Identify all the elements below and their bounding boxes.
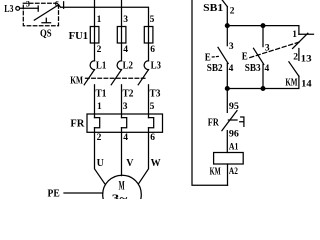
- wire NC to KM aux: [298, 49, 300, 61]
- svg-text:4: 4: [123, 133, 128, 143]
- svg-text:4: 4: [265, 64, 270, 74]
- svg-text:KM: KM: [285, 77, 297, 88]
- svg-text:A2: A2: [229, 167, 238, 177]
- svg-text:E: E: [205, 52, 211, 64]
- svg-text:V: V: [126, 158, 134, 169]
- svg-text:3: 3: [26, 0, 30, 8]
- button SB3 linkage dashed: [250, 41, 302, 57]
- svg-text:6: 6: [55, 0, 59, 8]
- button SB2 actuator dashes: [212, 55, 220, 58]
- wire rail to SB3: [262, 26, 264, 47]
- junction dot bottom mid: [261, 87, 265, 91]
- button SB3 blade: [254, 48, 264, 64]
- switch QS enclosure: [23, 3, 58, 25]
- FR heater 3: [149, 118, 154, 128]
- wire SB2 to bottom rail: [226, 64, 228, 89]
- svg-text:T3: T3: [150, 88, 161, 99]
- wire fuse3 to KM: [148, 43, 150, 61]
- svg-text:1: 1: [97, 15, 102, 25]
- pin 6 terminal tick: [63, 2, 65, 9]
- node L3: [16, 6, 20, 10]
- junction dot rail left: [225, 24, 229, 28]
- wire heater3 to motor W: [139, 128, 149, 184]
- wire coil A2 to return: [227, 164, 229, 185]
- svg-text:T2: T2: [123, 88, 134, 99]
- svg-text:A1: A1: [229, 142, 239, 152]
- svg-text:95: 95: [229, 102, 239, 112]
- svg-text:3: 3: [123, 102, 128, 112]
- wire SB3 to bottom rail: [262, 64, 264, 88]
- wire SB1 to rail: [226, 7, 228, 26]
- svg-text:SB1: SB1: [203, 3, 223, 14]
- svg-text:14: 14: [301, 80, 312, 90]
- svg-text:4: 4: [229, 64, 234, 74]
- svg-text:13: 13: [301, 54, 312, 64]
- relay FR contact crossbar: [228, 119, 237, 121]
- svg-text:PE: PE: [48, 188, 60, 199]
- button SB1 blade stub: [222, 0, 228, 7]
- svg-text:2: 2: [293, 52, 298, 62]
- svg-text:L3: L3: [4, 4, 13, 15]
- wire L3 to QS: [20, 7, 39, 9]
- svg-text:FU1: FU1: [69, 31, 89, 42]
- svg-text:96: 96: [229, 130, 239, 140]
- FR heater 1: [95, 118, 100, 128]
- svg-text:L1: L1: [96, 60, 106, 71]
- wire phase drop 1: [94, 0, 96, 27]
- svg-text:5: 5: [150, 15, 155, 25]
- button SB2 blade: [218, 47, 228, 63]
- svg-text:U: U: [97, 158, 104, 169]
- svg-text:L3: L3: [151, 60, 161, 71]
- relay FR contact blade: [222, 111, 237, 131]
- svg-text:W: W: [151, 158, 161, 169]
- svg-text:5: 5: [150, 102, 155, 112]
- wire FR to coil A1: [226, 131, 228, 153]
- wire heater2 to motor V: [121, 128, 123, 176]
- svg-text:KM: KM: [210, 166, 221, 177]
- svg-text:KM: KM: [70, 75, 83, 86]
- wire rail to SB3 NC: [298, 26, 300, 35]
- contactor KM main contact 2: [111, 61, 121, 85]
- wire heater1 to motor U: [95, 128, 105, 184]
- svg-text:QS: QS: [40, 28, 52, 39]
- coil KM: [214, 153, 244, 165]
- button SB3 NC blade: [293, 33, 308, 48]
- svg-text:2: 2: [97, 45, 102, 55]
- contactor KM main contact 3: [138, 61, 148, 85]
- wire T2 down: [121, 85, 123, 118]
- svg-text:3~: 3~: [112, 191, 129, 199]
- control return wire: [192, 0, 228, 185]
- pin 3 terminal tick: [37, 6, 39, 11]
- KM linkage dashed: [86, 77, 147, 79]
- wire rail to SB2: [226, 26, 228, 46]
- svg-text:2: 2: [97, 133, 102, 143]
- svg-text:1: 1: [292, 30, 297, 40]
- fuse FU1 pole1: [90, 27, 99, 44]
- wire T1 down: [94, 85, 96, 118]
- svg-text:3: 3: [229, 42, 234, 52]
- motor M: [103, 175, 142, 214]
- svg-text:1: 1: [97, 102, 102, 112]
- junction dot rail mid: [261, 24, 265, 28]
- wire bottom rail to FR contact: [226, 89, 228, 113]
- fuse FU1 pole2: [117, 27, 126, 44]
- svg-text:FR: FR: [208, 118, 219, 129]
- thermal relay FR enclosure: [87, 114, 163, 132]
- svg-text:E: E: [242, 50, 248, 62]
- svg-text:6: 6: [150, 45, 155, 55]
- contactor KM main contact 1: [84, 61, 94, 85]
- svg-text:L2: L2: [123, 60, 133, 71]
- svg-text:3: 3: [265, 43, 270, 53]
- svg-text:T1: T1: [96, 88, 107, 99]
- switch QS fixed contact mark: [42, 18, 51, 23]
- contactor KM aux contact blade: [289, 62, 299, 76]
- wire T3 down: [148, 85, 150, 118]
- svg-text:2: 2: [230, 7, 235, 17]
- top rail wire: [227, 25, 299, 27]
- svg-text:SB3: SB3: [245, 63, 261, 74]
- wire phase drop 2: [121, 0, 123, 27]
- svg-text:3: 3: [123, 15, 128, 25]
- FR heater 2: [122, 118, 127, 128]
- wire fuse1 to KM: [94, 43, 96, 61]
- fuse FU1 pole3: [144, 27, 153, 44]
- switch QS blade: [34, 5, 58, 20]
- PE wire: [64, 192, 103, 194]
- wire KM aux to bottom rail: [227, 76, 299, 88]
- svg-text:SB2: SB2: [207, 63, 223, 74]
- button SB3 NC seat bar: [299, 33, 314, 35]
- junction dot bottom left: [225, 87, 229, 91]
- svg-text:6: 6: [150, 133, 155, 143]
- wire QS to bus: [59, 5, 149, 27]
- wire fuse2 to KM: [121, 43, 123, 61]
- svg-text:4: 4: [123, 45, 128, 55]
- relay FR trip hook: [240, 117, 244, 126]
- svg-text:FR: FR: [70, 118, 84, 129]
